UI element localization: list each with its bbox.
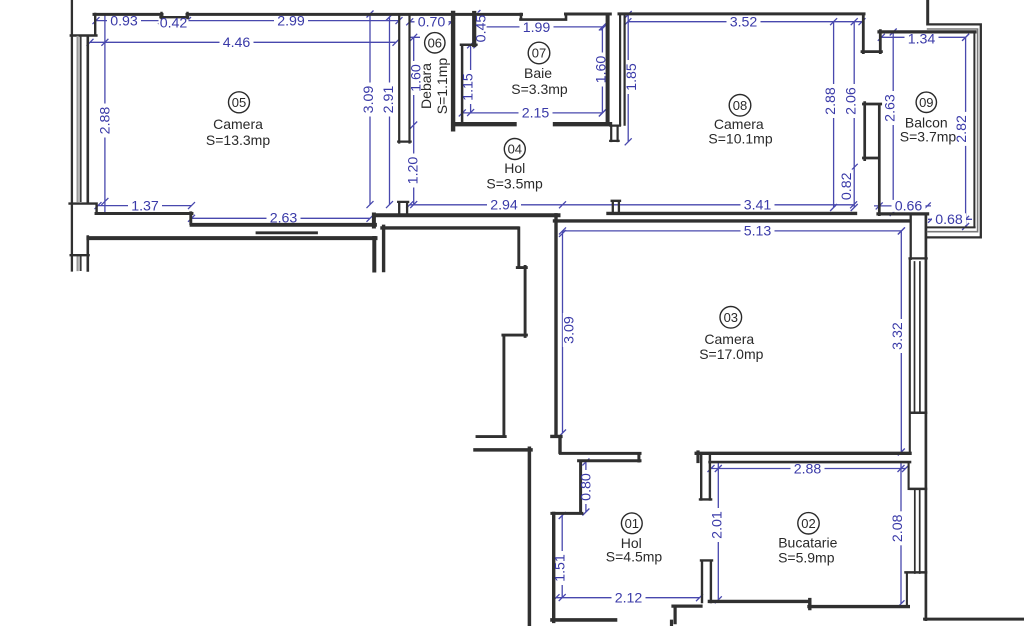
door sill Camera 05 south: [257, 231, 317, 234]
room 04 circle: [504, 139, 525, 160]
dim text 0.82 rotated: [839, 172, 855, 200]
svg-text:Debara: Debara: [418, 63, 434, 109]
svg-text:2.63: 2.63: [882, 94, 898, 122]
svg-text:3.52: 3.52: [730, 14, 758, 30]
dim line 0.66: [874, 202, 931, 209]
dim text 0.45 rotated: [473, 15, 489, 43]
wall west inner face of Camera 05: [87, 37, 90, 271]
svg-text:2.94: 2.94: [490, 198, 518, 214]
svg-text:0.42: 0.42: [160, 16, 188, 32]
svg-text:3.09: 3.09: [361, 86, 377, 114]
svg-text:08: 08: [733, 98, 747, 113]
room 07 circle: [528, 42, 550, 64]
wall top north of Camera 05: [94, 13, 162, 16]
dim text 1.60 Debara rotated: [408, 64, 424, 92]
svg-text:1.51: 1.51: [553, 554, 569, 582]
svg-text:S=4.5mp: S=4.5mp: [606, 549, 663, 565]
wall shaft step below Camera 08 west: [610, 126, 620, 141]
wall Baie south-west: [455, 122, 514, 126]
wall Balcon south: [878, 212, 928, 215]
wall chimney block east: [910, 215, 927, 259]
wall Hol 04 south: [374, 215, 559, 227]
dim text 2.82 rotated: [954, 115, 970, 143]
dim line 3.09 Camera 03: [559, 230, 566, 437]
wall Hol 01 west upper: [552, 461, 582, 513]
svg-text:Hol: Hol: [504, 160, 525, 176]
dim ticks top row: [93, 17, 403, 24]
wall top-left corner jog: [71, 14, 97, 36]
svg-text:2.63: 2.63: [270, 210, 298, 226]
wall west exterior of Camera 05: [71, 0, 73, 271]
room 06 label S=1.1mp rotated: [434, 58, 450, 115]
dim text 2.88 east rotated: [823, 87, 839, 115]
dim text 0.80 rotated: [579, 473, 595, 501]
wall Camera 08 west (hollow): [620, 14, 625, 125]
svg-text:2.88: 2.88: [97, 107, 113, 135]
dim line 1.85: [625, 11, 632, 145]
svg-text:S=10.1mp: S=10.1mp: [708, 131, 772, 147]
svg-text:0.93: 0.93: [110, 13, 138, 29]
wall Bucatarie west lower (hollow): [701, 560, 712, 602]
svg-text:0.45: 0.45: [473, 15, 489, 43]
dim line 2.88 east: [830, 18, 837, 211]
dim line 3.09 left: [367, 11, 374, 209]
svg-text:Camera: Camera: [213, 116, 263, 132]
dim line 1.15: [467, 41, 474, 116]
svg-text:0.66: 0.66: [895, 199, 923, 215]
dim text 1.37 mask: [128, 200, 162, 212]
dim text 2.91 rotated mask: [383, 83, 395, 117]
svg-text:S=3.5mp: S=3.5mp: [486, 175, 543, 191]
wall Bucatarie west upper (hollow): [700, 455, 711, 500]
window glass east Bucatarie: [915, 490, 920, 573]
dim text 2.12 mask: [612, 592, 646, 604]
dim text 2.08 rotated: [890, 514, 906, 542]
dim text 3.32 rotated: [890, 322, 906, 350]
wall Camera 03 south band upper: [696, 452, 910, 455]
svg-text:09: 09: [919, 95, 933, 110]
dim text 5.13 mask: [741, 225, 775, 237]
svg-text:2.88: 2.88: [823, 87, 839, 115]
dim text 1.60 Baie rotated: [594, 56, 610, 84]
dim line top row 0.93 / 0.42 / 2.99: [96, 20, 399, 22]
window sill east Bucatarie bottom: [906, 571, 927, 574]
dim line 1.34: [878, 34, 969, 41]
svg-text:Baie: Baie: [524, 65, 552, 81]
dim text 0.42 mask: [159, 17, 189, 29]
wall Camera 05 south upper: [96, 213, 192, 224]
dim line 2.15: [459, 109, 606, 116]
dim text 2.82 rotated mask: [955, 112, 967, 146]
wall Debara east: [451, 13, 455, 129]
wall top north of Camera 08: [619, 12, 864, 15]
svg-text:1.34: 1.34: [908, 32, 936, 48]
dim text 3.09 left rotated mask: [363, 83, 375, 117]
dim text 0.93 mask: [107, 15, 141, 27]
wall east inner face upper Bucatarie: [908, 464, 910, 489]
svg-text:2.82: 2.82: [954, 115, 970, 143]
dim line 2.88 Bucatarie: [708, 465, 910, 472]
svg-text:Camera: Camera: [704, 331, 754, 347]
dim text 2.01 rotated mask: [711, 508, 723, 542]
dim text 2.94 mask: [487, 199, 521, 211]
svg-text:1.60: 1.60: [594, 56, 610, 84]
dim line 1.60 / 1.20 Debara: [410, 34, 421, 208]
dim text 0.66 mask: [892, 200, 926, 212]
svg-text:2.99: 2.99: [277, 13, 305, 29]
dim text 2.01 rotated: [709, 511, 725, 539]
dim line 1.60 Baie: [599, 23, 606, 116]
svg-text:3.41: 3.41: [744, 198, 772, 214]
dim line 2.08: [898, 462, 905, 607]
svg-text:1.37: 1.37: [131, 198, 159, 214]
dim text 2.88 east rotated mask: [824, 84, 836, 118]
window sill east Bucatarie top: [911, 488, 926, 491]
wall Camera 03 north: [555, 219, 910, 222]
dim line 3.52: [624, 18, 865, 25]
room 09 circle: [916, 92, 936, 112]
window frame Balcon middle: [928, 29, 978, 232]
wall Baie south-east: [555, 122, 610, 126]
svg-text:02: 02: [801, 516, 815, 531]
dim text 3.41 mask: [741, 199, 775, 211]
svg-text:2.88: 2.88: [794, 462, 822, 478]
dim line 2.01: [715, 462, 722, 604]
svg-text:1.20: 1.20: [405, 157, 421, 185]
room 06 label Debara rotated: [418, 63, 434, 109]
dim text 2.06 rotated: [844, 87, 860, 115]
svg-text:0.68: 0.68: [935, 212, 963, 228]
wall east inner face Camera 03: [909, 259, 911, 453]
dim text 1.15 rotated mask: [462, 70, 474, 104]
svg-text:1.85: 1.85: [624, 63, 640, 91]
dim text 0.70 mask: [415, 16, 449, 28]
dim text 3.09 left rotated: [361, 86, 377, 114]
svg-text:S=1.1mp: S=1.1mp: [434, 58, 450, 115]
dim line 1.51: [559, 512, 566, 601]
dim text 3.52 mask: [727, 16, 761, 28]
room 06 circle: [425, 33, 445, 53]
dim line 5.13: [559, 227, 905, 234]
wall Hol 01 west lower: [552, 513, 555, 621]
wall vestibule outline: [477, 228, 526, 437]
dim text 3.09 Camera 03 rotated mask: [563, 313, 575, 347]
wall Camera 03 south band lower: [710, 461, 910, 464]
dim text 3.09 Camera 03 rotated: [562, 316, 578, 344]
dim text 2.88 Bucatarie mask: [791, 463, 825, 474]
wall east outer face: [925, 215, 928, 620]
dim text 1.85 rotated mask: [625, 60, 637, 94]
dim line 0.70: [406, 18, 455, 25]
svg-text:1.99: 1.99: [523, 20, 551, 36]
room 05 circle: [229, 92, 250, 113]
svg-text:2.01: 2.01: [709, 511, 725, 539]
svg-text:0.80: 0.80: [579, 473, 595, 501]
dim line 2.12: [553, 594, 704, 601]
wall Camera 03 west: [552, 215, 561, 452]
wall top notch 0.42: [161, 13, 189, 18]
wall Bucatarie south upper edge: [709, 600, 809, 609]
dim line 2.88 west: [101, 15, 108, 213]
dim text 0.68: [932, 213, 966, 225]
svg-text:2.12: 2.12: [615, 590, 643, 606]
dim text 1.60 Debara rotated mask: [410, 61, 422, 95]
svg-text:0.82: 0.82: [839, 172, 855, 200]
dim text 2.88 west rotated: [97, 107, 113, 135]
dim line 0.80: [582, 458, 589, 515]
svg-text:3.09: 3.09: [562, 316, 578, 344]
svg-text:S=3.7mp: S=3.7mp: [900, 129, 957, 145]
dim line 1.99: [478, 23, 608, 30]
room 01 circle: [621, 513, 642, 534]
svg-text:0.70: 0.70: [418, 15, 446, 31]
dim text 2.63 Balcon rotated mask: [884, 91, 896, 125]
svg-text:S=3.3mp: S=3.3mp: [511, 81, 568, 97]
wall Debara west (hollow): [398, 15, 410, 143]
dim text 0.45 rotated mask: [475, 13, 487, 45]
dim line 4.46: [87, 39, 400, 46]
wall Baie west jog horizontal: [461, 43, 476, 46]
svg-text:2.08: 2.08: [890, 514, 906, 542]
window glass west of Camera 05: [76, 37, 78, 270]
dim text 1.34 mask: [905, 34, 939, 45]
svg-text:5.13: 5.13: [744, 224, 772, 240]
wall Camera 08 south: [608, 212, 856, 215]
wall Baie west lower: [461, 45, 464, 125]
dim text 2.99 mask: [274, 15, 308, 27]
wall Camera 08 east upper: [862, 15, 881, 53]
room 03 circle: [720, 307, 742, 329]
dim text 2.63 mask: [267, 212, 301, 224]
wall Baie east: [606, 15, 610, 123]
dim text 1.99 mask: [520, 21, 554, 33]
dim text 1.60 Baie rotated mask: [595, 53, 607, 87]
wall Hol 01 south: [552, 618, 616, 622]
dim text 2.08 rotated mask: [891, 511, 903, 545]
dim line 0.68: [928, 216, 972, 223]
svg-text:04: 04: [508, 142, 522, 157]
wall entry south piece: [672, 606, 702, 626]
dim text 3.32 rotated mask: [891, 319, 903, 353]
svg-text:2.15: 2.15: [522, 106, 550, 122]
dim line 3.32: [898, 227, 905, 455]
svg-text:4.46: 4.46: [223, 35, 251, 51]
dim text 2.91 rotated: [381, 86, 397, 114]
room 02 circle: [798, 513, 819, 534]
window frame Balcon outer: [928, 24, 981, 237]
svg-text:Bucatarie: Bucatarie: [778, 535, 837, 551]
wall Camera 03 north-west corner piece: [382, 226, 518, 270]
dim line 2.91: [386, 14, 393, 209]
wall stub top-right above Balcon: [926, 0, 929, 24]
dim text 2.15 mask: [519, 107, 553, 119]
svg-text:S=5.9mp: S=5.9mp: [778, 549, 835, 565]
dim text 1.20 rotated: [405, 157, 421, 185]
dim text 1.51 rotated mask: [554, 551, 566, 585]
wall entry south-west big: [475, 448, 531, 626]
dim text 1.51 rotated: [553, 554, 569, 582]
wall south-east outer: [925, 618, 1024, 621]
room 08 circle: [729, 95, 751, 117]
svg-text:1.15: 1.15: [460, 73, 476, 101]
wall Balcon north: [879, 30, 975, 33]
dim text 1.15 rotated: [460, 73, 476, 101]
wall pillar between Camera 08 and Balcon: [863, 103, 880, 215]
window sill west of Camera 05: [70, 204, 97, 256]
svg-text:03: 03: [724, 310, 738, 325]
dim line 2.63 Balcon: [890, 29, 897, 217]
svg-text:2.91: 2.91: [381, 86, 397, 114]
dim text 4.46 mask: [220, 36, 254, 48]
wall block left end of Bucatarie north band: [696, 452, 699, 462]
dim text 1.20 rotated mask: [407, 154, 419, 188]
dim line 2.06 / 0.82: [851, 18, 858, 211]
dim line 1.37: [95, 202, 196, 209]
wall stub east of Hol 04 opening: [612, 201, 620, 212]
dim line 2.63: [188, 215, 374, 222]
wall top north Camera 05 to Debara: [187, 13, 522, 16]
svg-text:2.06: 2.06: [844, 87, 860, 115]
dim text 2.63 Balcon rotated: [882, 94, 898, 122]
dim text 0.80 rotated mask: [580, 470, 592, 504]
dim text 2.06 rotated mask: [845, 84, 857, 118]
wall stub west of Hol 04 door: [398, 202, 408, 213]
wall top north of Baie east part: [566, 13, 611, 16]
wall top north of Baie recessed: [521, 14, 567, 20]
dim text 1.85 rotated: [624, 63, 640, 91]
dim text 2.88 west rotated mask: [99, 104, 111, 138]
wall south exterior below Camera 05: [88, 238, 375, 271]
svg-text:06: 06: [428, 35, 442, 50]
svg-text:S=13.3mp: S=13.3mp: [206, 132, 270, 148]
wall Hol 01 north band: [560, 453, 640, 461]
svg-text:S=17.0mp: S=17.0mp: [699, 346, 763, 362]
svg-text:05: 05: [232, 95, 246, 110]
wall Camera 05 south step lower: [192, 223, 376, 227]
svg-text:3.32: 3.32: [890, 322, 906, 350]
dim line 0.45: [473, 10, 480, 48]
wall Bucatarie south lower edge: [809, 605, 908, 608]
window sill east Camera 03: [911, 411, 926, 414]
window glass east Camera 03: [915, 262, 920, 412]
svg-text:07: 07: [532, 46, 546, 61]
svg-text:01: 01: [625, 516, 639, 531]
dim text 0.82 rotated mask: [840, 169, 852, 203]
dim line 2.94 / 3.41: [406, 201, 857, 208]
wall Baie west upper jog: [472, 13, 476, 45]
wall east inner face lower Bucatarie: [906, 573, 908, 607]
dim line 2.82: [962, 34, 969, 230]
window frame Balcon inner: [928, 32, 975, 228]
